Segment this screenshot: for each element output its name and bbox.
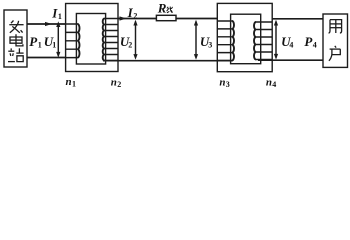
arrow I2 head [120, 16, 127, 20]
wire: bottom transmission line [103, 60, 232, 62]
svg-text:2: 2 [128, 40, 132, 49]
node: voltage arrow U1 [56, 21, 60, 57]
svg-text:1: 1 [58, 12, 62, 21]
svg-text:3: 3 [208, 40, 212, 49]
svg-text:1: 1 [72, 80, 76, 89]
transformer T2 outer core [217, 3, 272, 71]
svg-text:n: n [219, 76, 225, 88]
coil n3 (T2 primary, left leg) [217, 21, 234, 61]
coil n4 (T2 secondary, right leg) [254, 22, 272, 60]
node: voltage arrow U4 [274, 20, 278, 60]
node: voltage arrow U3 [194, 20, 198, 60]
svg-text:R: R [157, 1, 167, 16]
transformer T1 outer core [66, 4, 118, 72]
arrow I1 head [45, 22, 52, 26]
resistor R_line [156, 15, 176, 20]
svg-text:2: 2 [133, 11, 137, 20]
label 户 (user char 2) [329, 46, 341, 61]
block: user box 用户 [323, 14, 348, 67]
label 电 (station char 2) [10, 34, 23, 46]
node: voltage arrow U2 [133, 20, 137, 60]
svg-text:n: n [66, 76, 72, 88]
wire: resistor to T2 [176, 18, 217, 20]
transformer T2 inner core window [231, 14, 261, 64]
label 站 (station char 3) [8, 48, 24, 61]
svg-text:n: n [266, 76, 272, 88]
transformer T1 inner core window [76, 14, 105, 65]
svg-text:4: 4 [289, 40, 293, 49]
wire: T2 top output to user [272, 18, 323, 20]
label 用 (user char 1) [329, 20, 342, 33]
coil n1 (T1 primary, left leg) [66, 24, 80, 58]
svg-text:3: 3 [226, 80, 230, 89]
svg-text:4: 4 [313, 40, 317, 49]
svg-text:2: 2 [117, 80, 121, 89]
svg-text:1: 1 [38, 41, 42, 50]
svg-text:n: n [111, 76, 117, 88]
wire: station bottom output [27, 57, 66, 59]
wire: T2 bottom output to user [258, 59, 323, 61]
wire: T1 secondary top to resistor [118, 18, 156, 20]
label 发 (station char 1) [9, 21, 23, 33]
wire: station top output [27, 23, 66, 25]
block: power station box 发电站 [4, 10, 27, 67]
svg-text:1: 1 [52, 41, 56, 50]
coil n2 (T1 secondary, right leg) [103, 19, 118, 61]
svg-text:4: 4 [272, 80, 276, 89]
label 线 subscript [167, 7, 173, 13]
